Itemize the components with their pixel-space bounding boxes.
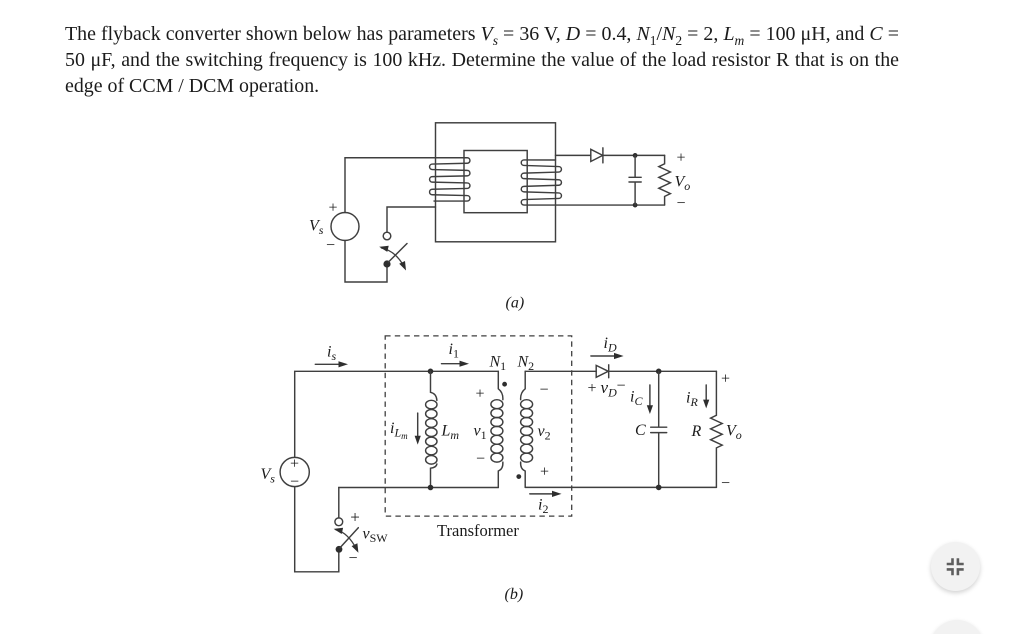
ideal transformer secondary N2 (b) (521, 371, 533, 487)
svg-text:Lm: Lm (441, 423, 460, 443)
switch SW (b) (334, 488, 359, 553)
ideal transformer primary N1 (b) (491, 371, 503, 487)
diode D (b) (596, 365, 609, 378)
svg-text:iD: iD (604, 335, 617, 355)
svg-text:v1: v1 (474, 423, 487, 443)
switch SW (a) (379, 232, 407, 270)
wire Vs top to primary (a) (344, 158, 346, 213)
wire Vs to top rail (b) (295, 371, 499, 457)
svg-text:+ vD: + vD (588, 378, 618, 400)
svg-text:i2: i2 (538, 497, 548, 517)
svg-text:i1: i1 (449, 341, 459, 361)
source Vs (b) (280, 457, 309, 486)
svg-text:C: C (635, 422, 646, 439)
svg-text:−: − (616, 378, 625, 395)
svg-text:−: − (326, 237, 335, 254)
svg-text:+: + (475, 386, 484, 403)
svg-text:Vs: Vs (309, 218, 324, 238)
svg-text:−: − (539, 382, 548, 399)
svg-text:+: + (540, 464, 549, 481)
svg-text:N2: N2 (517, 354, 535, 374)
arrow iC (647, 385, 653, 414)
source Vs (a) (331, 213, 359, 241)
svg-text:Vs: Vs (261, 466, 276, 486)
svg-text:iC: iC (630, 389, 643, 409)
node dot top (a) (633, 153, 638, 158)
svg-text:N1: N1 (489, 354, 507, 374)
svg-text:−: − (290, 473, 299, 490)
inductor Lm (b) (426, 371, 437, 487)
dashed transformer box (385, 336, 572, 516)
svg-text:is: is (327, 344, 336, 364)
svg-text:Transformer: Transformer (437, 521, 519, 540)
polarity dot N2 (516, 474, 521, 479)
svg-text:+: + (290, 456, 299, 473)
arrow i1 (442, 361, 470, 367)
diode D (a) (591, 148, 603, 163)
node dot C top (b) (656, 369, 662, 375)
svg-text:−: − (348, 550, 357, 567)
primary winding (a) (345, 158, 470, 201)
svg-text:iLm: iLm (390, 420, 408, 441)
svg-text:iR: iR (686, 390, 698, 410)
svg-text:+: + (676, 150, 685, 167)
svg-text:R: R (691, 423, 702, 440)
secondary winding (a) (521, 160, 664, 205)
fullscreen-exit button (931, 542, 980, 591)
transformer core outer (a) (436, 123, 556, 242)
svg-text:(a): (a) (506, 295, 525, 312)
svg-text:(b): (b) (505, 586, 524, 603)
arrow i2 (530, 491, 562, 497)
resistor load (a) (659, 155, 671, 205)
node dot top Lm (b) (428, 369, 434, 375)
svg-text:+: + (721, 371, 730, 388)
node dot C bottom (b) (656, 485, 662, 491)
partially visible second button (931, 620, 983, 634)
resistor R (b) (711, 371, 723, 487)
svg-text:vSW: vSW (363, 526, 389, 546)
wire secondary to diode (b) (525, 370, 596, 372)
wire secondary to diode (a) (556, 154, 591, 156)
wire diode to output (a) (603, 154, 665, 156)
wire secondary bottom rail (b) (525, 486, 716, 488)
svg-text:+: + (328, 200, 337, 217)
arrow iLm (415, 413, 421, 445)
arrow iD (591, 353, 624, 359)
svg-text:−: − (676, 195, 685, 212)
arrow is (315, 361, 348, 367)
svg-text:Vo: Vo (675, 174, 691, 194)
polarity dot N1 (502, 382, 507, 387)
wire diode to R top (b) (609, 370, 717, 372)
node dot bottom (a) (633, 203, 638, 208)
transformer core inner window (a) (464, 151, 527, 213)
capacitor C (b) (651, 371, 667, 487)
arrow iR (703, 385, 709, 408)
svg-text:+: + (350, 508, 360, 527)
wire Vs bottom rail (b) (295, 487, 339, 572)
wire primary bottom rail (b) (339, 487, 499, 489)
wire switch to core (a) (387, 207, 436, 232)
svg-text:v2: v2 (538, 423, 551, 443)
svg-text:−: − (476, 451, 485, 468)
capacitor (a) (629, 155, 641, 205)
wire Vs bottom to switch (a) (345, 241, 387, 283)
svg-text:Vo: Vo (726, 423, 742, 443)
svg-text:−: − (721, 475, 730, 492)
node dot Lm bottom (b) (428, 485, 434, 491)
